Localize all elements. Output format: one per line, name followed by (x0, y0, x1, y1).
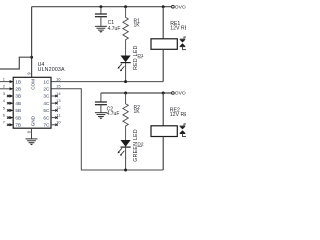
resistor R1 (123, 7, 128, 56)
svg-text:5B: 5B (15, 108, 21, 113)
input arrow pin 7 (10, 123, 14, 126)
relay coil RE1 (151, 39, 177, 50)
svg-text:1C: 1C (43, 79, 50, 84)
junction rail2-RE2 (162, 92, 165, 95)
svg-text:OVCC: OVCC (175, 4, 186, 10)
no-connect cross pin 6 (7, 116, 9, 118)
svg-text:15: 15 (56, 84, 61, 89)
svg-text:1: 1 (3, 77, 6, 82)
svg-text:12V RELAY: 12V RELAY (170, 112, 186, 118)
svg-text:3B: 3B (15, 94, 21, 99)
capacitor C1 (95, 7, 107, 27)
stub pin 7 n/c (8, 124, 13, 126)
svg-text:1K: 1K (134, 22, 141, 28)
svg-text:5C: 5C (43, 108, 50, 113)
svg-text:11: 11 (56, 112, 61, 117)
stub pin 13 n/c (51, 102, 58, 104)
svg-text:6: 6 (3, 113, 6, 118)
svg-text:13: 13 (56, 98, 61, 103)
junction rail1-R1 (124, 5, 127, 8)
LED D1 (118, 56, 131, 72)
stub pin 11 n/c (51, 117, 58, 119)
relay coil RE2 (151, 126, 177, 137)
node OVCC terminal 2 (172, 92, 175, 95)
junction rail2-R2 (124, 92, 127, 95)
capacitor C2 (95, 93, 107, 113)
svg-text:1B: 1B (15, 79, 21, 84)
svg-text:12: 12 (56, 105, 61, 110)
no-connect cross pin 11 (55, 116, 57, 118)
no-connect cross pin 5 (7, 109, 9, 111)
stub pin 10 n/c (51, 124, 58, 126)
stub pin 4 n/c (8, 102, 13, 104)
relay contact RE1 (180, 37, 186, 50)
wire net 1C (51, 81, 163, 83)
svg-text:OVCC: OVCC (175, 91, 186, 97)
wire OVCC rail 2 (101, 92, 172, 94)
svg-text:14: 14 (56, 91, 61, 96)
no-connect cross pin 10 (55, 124, 57, 126)
svg-text:4B: 4B (15, 101, 21, 106)
ground below C1 (95, 26, 107, 32)
junction D1-net1C (124, 80, 127, 83)
input arrow pin 1 (10, 80, 14, 83)
stub pin 6 n/c (8, 117, 13, 119)
relay contact RE2 (180, 124, 186, 137)
wire D1 cathode (125, 63, 127, 82)
svg-text:16: 16 (56, 76, 61, 81)
underline D2 (137, 145, 142, 147)
wire RE2 coil top (162, 93, 164, 126)
IC U4 body (13, 77, 51, 128)
no-connect cross pin 7 (7, 124, 9, 126)
ground below C2 (95, 113, 107, 119)
svg-text:10: 10 (56, 120, 61, 125)
svg-text:3: 3 (3, 91, 6, 96)
stub pin 3 n/c (8, 95, 13, 97)
svg-text:COM: COM (30, 79, 35, 90)
no-connect cross pin 3 (7, 95, 9, 97)
wire RE1 coil top (162, 7, 164, 39)
svg-text:7B: 7B (15, 123, 21, 128)
svg-text:8: 8 (26, 130, 31, 133)
wire input pin 1 (0, 81, 13, 83)
svg-text:5: 5 (3, 105, 6, 110)
stub pin 5 n/c (8, 109, 13, 111)
svg-text:7: 7 (3, 120, 6, 125)
wire RE1 coil bottom (162, 49, 164, 81)
no-connect cross pin 4 (7, 102, 9, 104)
node OVCC terminal 1 (172, 5, 175, 8)
svg-text:4.7uF: 4.7uF (107, 111, 120, 117)
svg-text:6B: 6B (15, 115, 21, 120)
junction D2-net2C (124, 169, 127, 172)
stub pin 14 n/c (51, 95, 58, 97)
wire OVCC rail 1 (32, 6, 172, 8)
junction rail1-RE1 (162, 5, 165, 8)
wire COM feed vertical (31, 7, 33, 78)
wire COM branch to left edge (0, 57, 32, 69)
svg-text:12V RELAY: 12V RELAY (170, 26, 186, 32)
svg-text:1K: 1K (134, 109, 141, 115)
svg-text:9: 9 (26, 72, 31, 75)
no-connect cross pin 12 (55, 109, 57, 111)
wire net 2C (51, 89, 163, 170)
svg-text:GND: GND (30, 115, 35, 126)
input arrow pin 2 (10, 87, 14, 90)
svg-text:4C: 4C (43, 101, 50, 106)
wire RE2 coil bottom (162, 137, 164, 171)
ground below pin 8 (26, 139, 38, 145)
svg-text:2C: 2C (43, 87, 50, 92)
underline D1 (137, 57, 142, 59)
no-connect cross pin 14 (55, 95, 57, 97)
input arrow pin 3 (10, 94, 14, 97)
svg-text:3C: 3C (43, 94, 50, 99)
junction COM branch (30, 56, 33, 59)
svg-text:ULN2003A: ULN2003A (38, 67, 65, 73)
input arrow pin 5 (10, 109, 14, 112)
svg-text:7C: 7C (43, 123, 50, 128)
resistor R2 (123, 93, 128, 140)
junction rail1-C1 (99, 5, 102, 8)
input arrow pin 6 (10, 116, 14, 119)
wire D2 cathode (125, 147, 127, 170)
no-connect cross pin 13 (55, 102, 57, 104)
svg-text:6C: 6C (43, 115, 50, 120)
pin 8 GND stub (31, 128, 33, 139)
svg-text:4: 4 (3, 98, 6, 103)
LED D2 (118, 140, 131, 156)
svg-text:2: 2 (3, 84, 6, 89)
svg-text:2B: 2B (15, 87, 21, 92)
input arrow pin 4 (10, 102, 14, 105)
wire input pin 2 (0, 88, 13, 90)
svg-text:4.7uF: 4.7uF (108, 26, 121, 32)
stub pin 12 n/c (51, 109, 58, 111)
